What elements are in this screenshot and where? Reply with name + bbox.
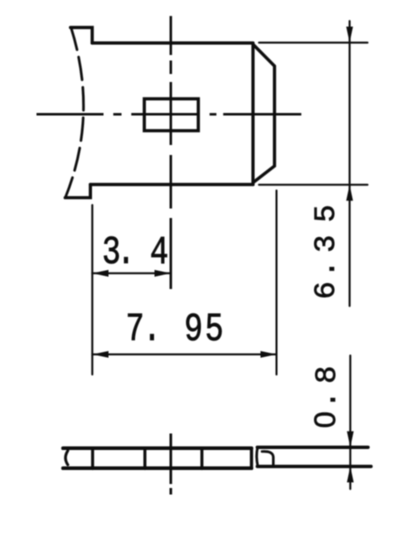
bottom view: bend line 3 [200, 448, 203, 469]
dimension line 7.95 [92, 353, 276, 355]
svg-text:5: 5 [205, 307, 224, 353]
dimension line 3.4 [92, 272, 170, 274]
svg-text:3: 3 [310, 235, 344, 253]
right edge (main body) [251, 44, 254, 185]
bottom view right piece: inner hook (chamfer edge) [262, 451, 273, 464]
arrowhead 0.8 top (outside, pointing down) [347, 431, 354, 447]
arrowhead 6.35 top (outside, pointing down) [346, 27, 353, 43]
extension line bottom (6.35) [259, 184, 368, 186]
svg-text:0: 0 [309, 411, 342, 428]
extension line left (for 3.4 and 7.95) [91, 205, 93, 375]
bottom edge [90, 183, 253, 186]
arrowhead 0.8 bottom (outside, pointing up) [347, 466, 354, 482]
vertical centerline [170, 16, 173, 289]
bottom view centerline [170, 434, 173, 495]
svg-text:8: 8 [311, 366, 345, 384]
svg-text:.: . [143, 307, 162, 353]
bottom view: bend line 2 [143, 448, 146, 469]
arrowhead 3.4 left [93, 270, 109, 277]
bottom view: top surface line [63, 446, 252, 450]
bottom view right piece: bottom surface + extension 0.8 [257, 465, 371, 468]
bottom view: bend line 1 [91, 448, 94, 469]
horizontal centerline [37, 113, 302, 116]
dimension line 6.35 (vertical) [349, 21, 351, 306]
svg-text:.: . [310, 260, 344, 278]
arrowhead 6.35 bottom (outside, pointing up) [346, 185, 353, 201]
bottom view right piece: top surface + extension 0.8 [257, 446, 368, 449]
bottom view right piece: left cap [257, 447, 258, 466]
dimension line 0.8 (vertical) [349, 356, 351, 490]
arrowhead 7.95 right [261, 351, 277, 358]
svg-text:4: 4 [150, 230, 169, 276]
top step (upper-left notch outline) [71, 28, 93, 44]
top edge [92, 41, 253, 44]
svg-text:7: 7 [126, 307, 145, 353]
right flange with chamfers [253, 45, 274, 183]
center rectangle (punched hole) [144, 99, 198, 131]
arrowhead 7.95 left [93, 351, 109, 358]
bottom view: left end arc [66, 451, 68, 465]
arrowhead 3.4 right [155, 270, 171, 277]
svg-text:.: . [311, 391, 345, 409]
bottom view: right end cap [250, 448, 253, 468]
svg-text:5: 5 [310, 204, 344, 222]
svg-text:6: 6 [310, 281, 344, 299]
bottom view: bottom surface line [63, 466, 252, 470]
bottom step (lower-left notch outline) [65, 185, 90, 198]
svg-text:9: 9 [184, 307, 203, 353]
left curved edge (dashed arc) [65, 28, 83, 198]
extension line top (6.35) [259, 42, 368, 44]
extension line right of 7.95 [276, 191, 278, 375]
svg-text:.: . [117, 230, 136, 276]
